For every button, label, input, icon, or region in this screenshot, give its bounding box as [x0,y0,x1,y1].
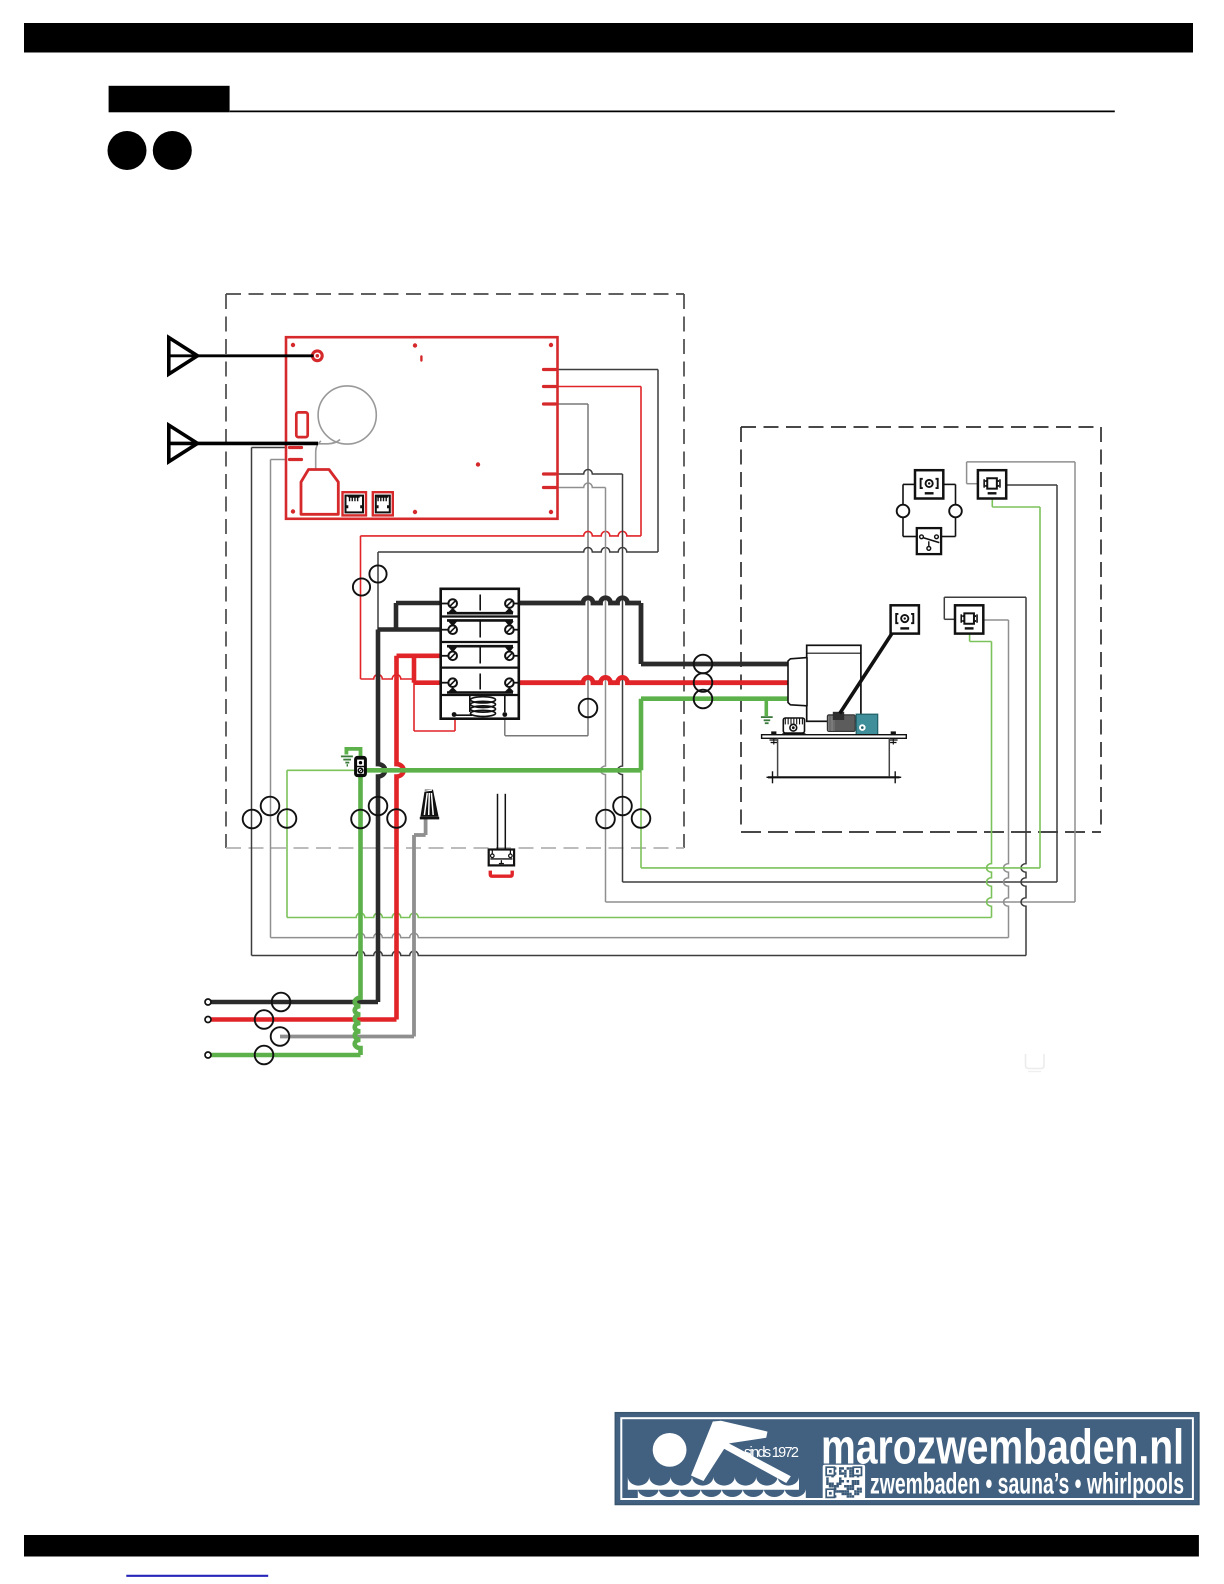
svg-text:sinds 1972: sinds 1972 [744,1445,799,1461]
svg-text:zwembaden • sauna’s • whirlpoo: zwembaden • sauna’s • whirlpools [870,1468,1184,1501]
svg-text:marozwembaden.nl: marozwembaden.nl [821,1421,1184,1475]
